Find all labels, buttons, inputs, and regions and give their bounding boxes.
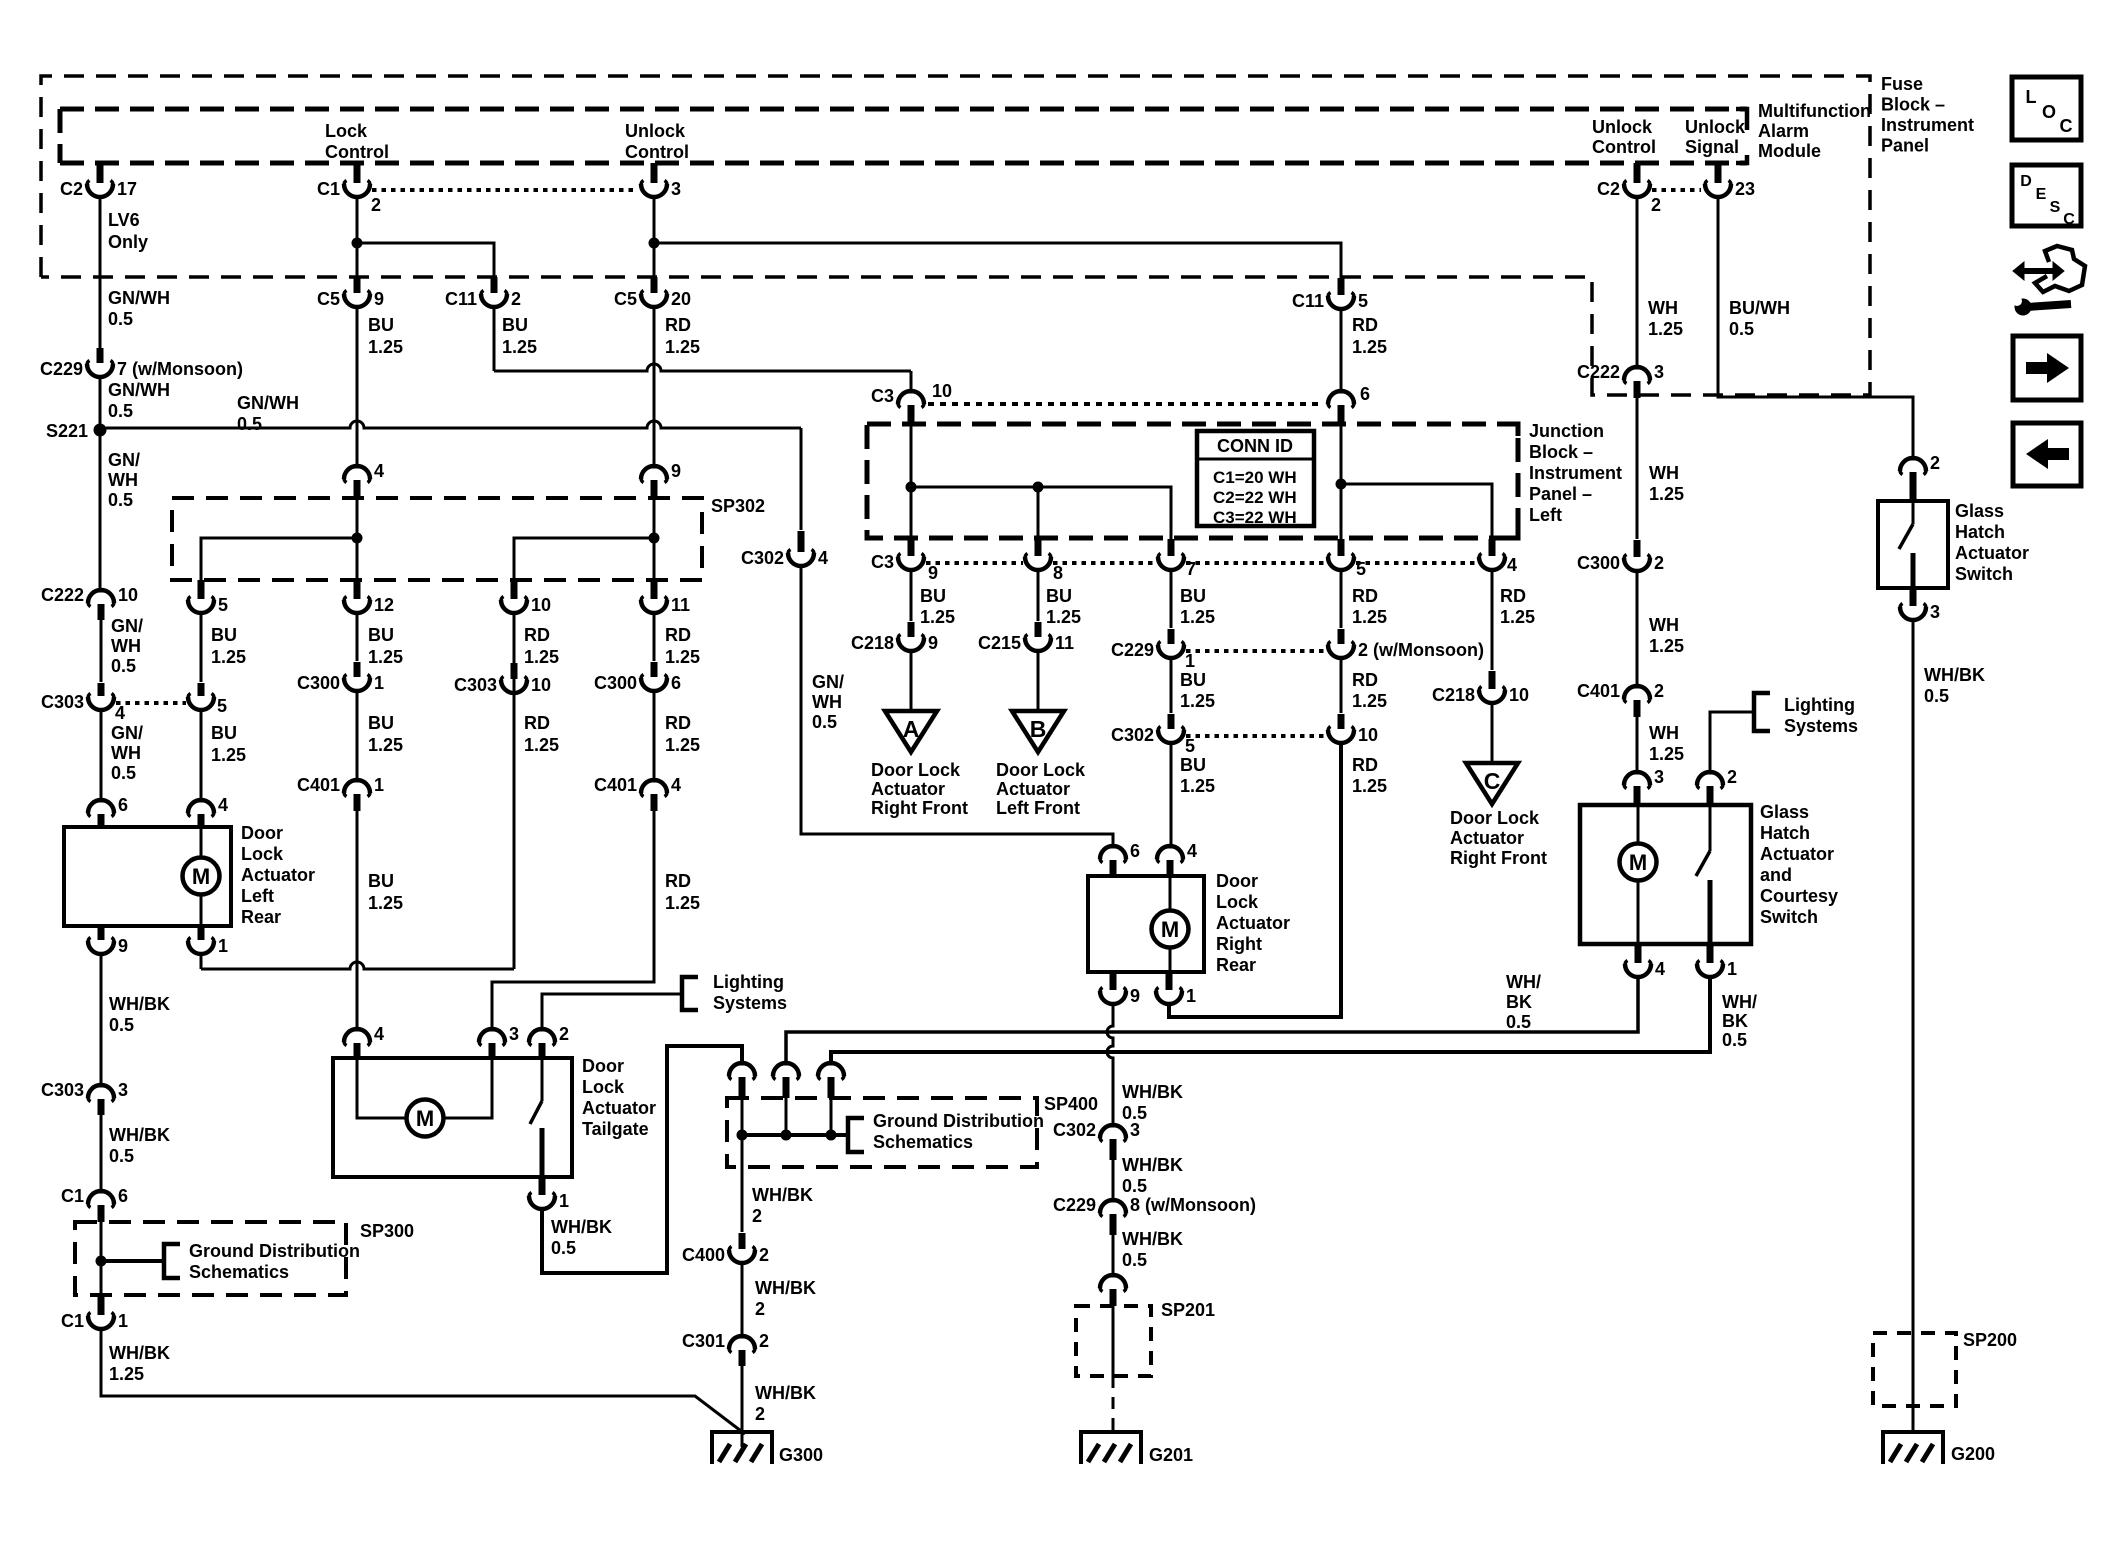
svg-text:WH1.25: WH1.25 [1649, 615, 1684, 656]
wire C302-10 down to right rear actuator pin 1 [1169, 744, 1341, 1017]
svg-text:CONN ID: CONN ID [1217, 436, 1293, 456]
svg-text:4: 4 [671, 775, 681, 795]
multifunction alarm module right bracket [1736, 109, 1747, 130]
svg-text:2: 2 [511, 289, 521, 309]
connector pin 4 left rear actuator [197, 799, 206, 803]
svg-text:C1: C1 [61, 1186, 84, 1206]
connector pin 3 glass hatch switch [1910, 588, 1917, 606]
svg-text:4: 4 [818, 548, 828, 568]
svg-text:SP200: SP200 [1963, 1330, 2017, 1350]
connector SP400 pin 1 [738, 1062, 747, 1066]
svg-text:C5: C5 [614, 289, 637, 309]
svg-text:23: 23 [1735, 179, 1755, 199]
connector C3 pin 6 [1337, 390, 1346, 394]
connector C300 pin 1 [354, 662, 361, 677]
connector pin 2 tailgate actuator [538, 1028, 547, 1032]
junction dot lock control [352, 238, 363, 249]
wire left-rear pin1 right and up to C303-10 with hop [200, 955, 203, 969]
wire tailgate pin 2 to lighting systems bracket [542, 994, 682, 1030]
connector C302 pin 3 [1109, 1124, 1118, 1128]
connector C229 pin 7 [97, 348, 104, 363]
connector pin 1 left rear actuator [198, 926, 205, 940]
connector C400 pin 2 [739, 1233, 746, 1249]
svg-text:M: M [1161, 917, 1179, 942]
svg-text:11: 11 [1055, 633, 1074, 653]
connector C5 pin 20 [651, 277, 658, 293]
connector C3 pin 10 [907, 390, 916, 394]
svg-text:L: L [2026, 87, 2037, 107]
svg-text:5: 5 [217, 696, 227, 716]
wire C303-4 to left rear actuator pin 6 [100, 711, 103, 801]
wire C222-10 to C303-4 [100, 620, 103, 682]
connector pin 2 glass hatch switch [1909, 457, 1918, 461]
svg-text:5: 5 [1358, 291, 1368, 311]
connector pin 6 left rear actuator [97, 799, 106, 803]
svg-text:2: 2 [1727, 767, 1737, 787]
svg-text:2: 2 [1930, 453, 1940, 473]
wire SP400 to C400-2 [741, 1167, 744, 1232]
svg-text:C401: C401 [1577, 681, 1620, 701]
connector C401 pin 2 [1633, 685, 1642, 689]
svg-text:G201: G201 [1149, 1445, 1193, 1465]
wire C5-20 down to connector 9 [653, 308, 656, 466]
junction block internal wires [910, 424, 913, 539]
svg-text:C302: C302 [1111, 725, 1154, 745]
connector C229 pin 2 [1338, 629, 1345, 644]
svg-text:6: 6 [1360, 384, 1370, 404]
lighting systems bracket left [682, 977, 698, 1010]
wire glass hatch 1 to SP400 pin 3 [831, 978, 1710, 1064]
svg-text:C2: C2 [1597, 179, 1620, 199]
svg-text:10: 10 [531, 675, 551, 695]
svg-text:UnlockControl: UnlockControl [625, 121, 689, 162]
wire C3-8 to C215-11 [1037, 571, 1040, 621]
wire junction down to C5-9 [356, 243, 359, 277]
wire C3-4 to C218-10 [1491, 571, 1494, 670]
svg-text:12: 12 [374, 595, 394, 615]
glass hatch switch blade [1912, 501, 1915, 524]
dotted link C302-5 to C302-10 [1186, 734, 1326, 738]
wire C3-7 to C229-1 [1170, 571, 1173, 628]
connector C218 pin 9 [908, 622, 915, 637]
svg-text:9: 9 [671, 461, 681, 481]
connector pin 23 (unlock signal) [1715, 163, 1722, 183]
connector C229 pin 1 [1168, 629, 1175, 644]
svg-text:SP201: SP201 [1161, 1300, 1215, 1320]
svg-text:C302: C302 [741, 548, 784, 568]
connector pin 11 out of SP302 [651, 580, 658, 599]
wire C3-9 to C218-9 [910, 571, 913, 621]
SP302 internal wires [356, 498, 359, 580]
wire glass hatch 4 to SP400 pin 2 [786, 978, 1638, 1064]
svg-text:3: 3 [1654, 767, 1664, 787]
dashed wire SP201 to G201 [1112, 1376, 1115, 1432]
dotted link C3-10 to C3-6 [928, 402, 1324, 406]
svg-text:3: 3 [1654, 362, 1664, 382]
wire C302-5 to right rear actuator pin 4 [1170, 744, 1173, 847]
svg-text:5: 5 [1185, 736, 1195, 756]
svg-text:C300: C300 [297, 673, 340, 693]
connector C218 pin 10 [1489, 671, 1496, 689]
wire C401-4 down left to tailgate pin 3 [492, 811, 654, 1030]
svg-text:9: 9 [928, 563, 938, 583]
svg-text:2: 2 [1651, 195, 1661, 215]
svg-text:4: 4 [115, 703, 125, 723]
svg-text:2 (w/Monsoon): 2 (w/Monsoon) [1358, 640, 1484, 660]
multifunction alarm module dashed box [60, 107, 1747, 112]
ground G201 [1081, 1432, 1141, 1464]
right arrow icon box [2013, 336, 2081, 400]
svg-text:SP400: SP400 [1044, 1094, 1098, 1114]
SP400 internal bus [741, 1098, 744, 1167]
svg-text:1: 1 [1185, 651, 1195, 671]
SP300 dashed box [75, 1222, 346, 1295]
svg-text:UnlockSignal: UnlockSignal [1685, 117, 1746, 157]
wire C301-2 to G300 [741, 1366, 744, 1447]
connector pin 6 right rear actuator [1109, 845, 1118, 849]
svg-text:WH1.25: WH1.25 [1649, 463, 1684, 504]
SP200 internal wire [1912, 1333, 1915, 1432]
svg-text:LightingSystems: LightingSystems [1784, 695, 1858, 736]
wire C3-5 to C229-2 [1340, 571, 1343, 628]
connector C3 pin 5 [1338, 539, 1345, 556]
svg-text:SP302: SP302 [711, 496, 765, 516]
glass hatch actuator and courtesy switch box [1580, 805, 1751, 944]
svg-text:4: 4 [374, 1024, 384, 1044]
off-page triangle B [1012, 711, 1064, 752]
svg-text:17: 17 [117, 179, 137, 199]
svg-text:C11: C11 [1292, 291, 1324, 311]
junction block dashed box [867, 424, 1518, 538]
svg-text:C401: C401 [297, 775, 340, 795]
connector C11 pin 5 [1338, 278, 1345, 295]
svg-text:C3: C3 [871, 386, 894, 406]
connector pin 1 glass hatch actuator [1707, 944, 1714, 963]
ground G300 [712, 1432, 772, 1464]
ground distribution bracket SP400 [848, 1118, 864, 1152]
svg-text:6: 6 [671, 673, 681, 693]
ground G200 [1883, 1432, 1943, 1464]
svg-text:UnlockControl: UnlockControl [1592, 117, 1656, 157]
tailgate motor circuit [357, 1058, 407, 1118]
svg-text:2: 2 [1654, 681, 1664, 701]
svg-text:B: B [1030, 716, 1047, 742]
svg-text:C1: C1 [61, 1311, 84, 1331]
connector C229 pin 8 [1109, 1199, 1118, 1203]
connector C222 pin 3 [1633, 366, 1642, 370]
connector pin 1 right rear actuator [1166, 972, 1173, 990]
connector C3 pin 8 [1035, 539, 1042, 556]
wire 12 to C300-1 [356, 614, 359, 661]
svg-text:6: 6 [118, 1186, 128, 1206]
svg-text:C3: C3 [871, 552, 894, 572]
svg-text:11: 11 [671, 595, 690, 615]
svg-text:C5: C5 [317, 289, 340, 309]
svg-text:C218: C218 [1432, 685, 1475, 705]
connector C3 pin 9 [908, 539, 915, 556]
svg-text:S221: S221 [46, 421, 88, 441]
door lock actuator left rear box [64, 827, 231, 926]
wire C300-1 to C401-1 [356, 692, 359, 781]
svg-text:5: 5 [218, 595, 228, 615]
CONN ID table [1197, 431, 1314, 526]
dotted links connector C3 bottom row [926, 561, 1023, 565]
left arrow icon box [2013, 423, 2081, 486]
svg-text:2: 2 [759, 1331, 769, 1351]
svg-text:WH1.25: WH1.25 [1648, 298, 1683, 339]
connector pin 5 out of SP302 [198, 580, 205, 599]
wire C11-5 down to junction block pin 6 [1340, 310, 1343, 391]
svg-text:M: M [416, 1106, 434, 1131]
connector C401 pin 1 [353, 779, 362, 783]
wire left rear pin 9 to C303-3 [100, 955, 103, 1086]
svg-text:C222: C222 [41, 585, 84, 605]
svg-text:S: S [2050, 199, 2061, 216]
svg-text:2: 2 [1654, 553, 1664, 573]
motor M right rear [1169, 876, 1172, 910]
connector C303 pin 10 [511, 663, 518, 679]
svg-text:C2: C2 [60, 179, 83, 199]
svg-text:3: 3 [118, 1080, 128, 1100]
connector C401 pin 4 [650, 779, 659, 783]
svg-text:C215: C215 [978, 633, 1021, 653]
service icon double arrow [2019, 268, 2058, 274]
wire C5-9 down to connector 4 [356, 308, 359, 466]
svg-text:O: O [2042, 102, 2056, 122]
svg-text:10: 10 [531, 595, 551, 615]
wire C302-3 to C229-8 [1112, 1160, 1115, 1201]
svg-text:C400: C400 [682, 1245, 725, 1265]
wire glass hatch switch to SP200 [1912, 621, 1915, 1333]
connector C2 pin 2 (unlock control right) [1634, 163, 1641, 183]
svg-text:4: 4 [1187, 841, 1197, 861]
svg-text:4: 4 [1507, 555, 1517, 575]
wire tailgate pin1 to SP400 [542, 1046, 742, 1273]
motor M left rear [200, 827, 203, 858]
svg-text:G200: G200 [1951, 1444, 1995, 1464]
connector C1 pin 3 (unlock control) [651, 163, 658, 183]
connector pin 4 right rear actuator [1166, 845, 1175, 849]
wire lighting systems to courtesy switch pin 2 [1710, 712, 1754, 772]
svg-text:1: 1 [374, 673, 384, 693]
svg-text:10: 10 [118, 585, 138, 605]
wire C1-2 down to junction [356, 198, 359, 243]
connector C1 pin 2 (lock control) [354, 163, 361, 183]
LOC icon box [2012, 77, 2081, 140]
svg-text:C218: C218 [851, 633, 894, 653]
svg-text:C229: C229 [40, 359, 83, 379]
connector pin 1 tailgate actuator [539, 1177, 546, 1195]
connector C303 pin 3 [97, 1084, 106, 1088]
svg-text:M: M [192, 864, 210, 889]
fuse block - instrument panel dashed outline [41, 76, 1870, 395]
service icon outline blob [2035, 246, 2085, 292]
lighting systems bracket right [1754, 693, 1770, 731]
connector pin 9 left rear actuator [98, 926, 105, 940]
svg-text:LightingSystems: LightingSystems [713, 972, 787, 1013]
wire C229-7 to S221 [99, 378, 102, 424]
connector C300 pin 2 [1634, 540, 1641, 557]
wire C401-1 to tailgate actuator pin 4 [356, 811, 359, 1030]
svg-text:3: 3 [1130, 1120, 1140, 1140]
wire C2-2 to C222-3 [1636, 198, 1639, 367]
svg-text:7 (w/Monsoon): 7 (w/Monsoon) [117, 359, 243, 379]
svg-text:C222: C222 [1577, 362, 1620, 382]
svg-text:SP300: SP300 [360, 1221, 414, 1241]
door lock actuator right rear box [1088, 876, 1204, 972]
splice S221 [94, 424, 107, 437]
svg-text:C11: C11 [445, 289, 477, 309]
connector pin 9 right rear actuator [1110, 972, 1117, 990]
svg-text:A: A [903, 716, 920, 742]
svg-text:9: 9 [928, 633, 938, 653]
svg-text:3: 3 [509, 1024, 519, 1044]
connector pin 4 into SP302 [353, 465, 362, 469]
svg-text:G300: G300 [779, 1445, 823, 1465]
svg-text:9: 9 [1130, 986, 1140, 1006]
connector C302 pin 5 [1168, 714, 1175, 729]
svg-text:20: 20 [671, 289, 691, 309]
connector C1 pin 6 [97, 1190, 106, 1194]
svg-text:9: 9 [374, 289, 384, 309]
wire C229-2 to C302-10 [1340, 659, 1343, 713]
connector pin 10 out of SP302 [511, 580, 518, 599]
wire C303-5 to left rear actuator pin 4 [200, 711, 203, 801]
svg-text:2: 2 [559, 1024, 569, 1044]
dotted link C229-1 to C229-2 [1186, 649, 1326, 653]
connector into SP201 [1109, 1274, 1118, 1278]
dotted link C2-2 to pin 23 [1652, 188, 1701, 192]
connector C11 pin 2 [491, 277, 498, 293]
glass hatch actuator switch box [1878, 501, 1948, 588]
connector SP400 pin 2 [782, 1062, 791, 1066]
svg-text:C300: C300 [594, 673, 637, 693]
wire junction to C11-5 [654, 243, 1341, 278]
svg-text:8: 8 [1053, 563, 1063, 583]
svg-text:8 (w/Monsoon): 8 (w/Monsoon) [1130, 1195, 1256, 1215]
svg-text:3: 3 [1930, 602, 1940, 622]
connector pin 12 out of SP302 [354, 580, 361, 599]
SP201 internal wire [1112, 1306, 1115, 1376]
off-page triangle C [1466, 763, 1518, 804]
connector C3 pin 7 [1168, 539, 1175, 556]
wire C11-2 down and right to C3-10 with hop [493, 308, 496, 371]
svg-text:C: C [2060, 116, 2073, 136]
svg-text:C300: C300 [1577, 553, 1620, 573]
svg-text:6: 6 [1130, 841, 1140, 861]
svg-text:C1: C1 [317, 179, 340, 199]
courtesy switch blade [1709, 805, 1712, 851]
wire C2-17 to C229-7 [99, 198, 102, 349]
connector C302 pin 4 [798, 531, 805, 552]
connector C303 pin 4 [98, 683, 105, 696]
DESC icon box [2012, 165, 2081, 226]
wire C303-3 to C1-6 [100, 1115, 103, 1192]
svg-text:C301: C301 [682, 1331, 725, 1351]
connector C3 pin 4 [1489, 539, 1496, 556]
connector C5 pin 9 [354, 277, 361, 293]
wire C1-3 down to junction [653, 198, 656, 243]
svg-text:10: 10 [932, 381, 952, 401]
tailgate switch [541, 1058, 544, 1101]
wire S221 down to C222-10 [99, 436, 102, 590]
service icon wrench [2015, 299, 2032, 316]
connector pin 3 glass hatch actuator [1633, 771, 1642, 775]
wire pin 23 to glass hatch switch pin 2 [1718, 198, 1913, 458]
svg-text:C303: C303 [41, 1080, 84, 1100]
svg-text:4: 4 [374, 461, 384, 481]
connector pin 2 courtesy switch [1706, 771, 1715, 775]
svg-text:1: 1 [374, 775, 384, 795]
wire 5 to C303-5 [200, 614, 203, 682]
connector pin 9 into SP302 [650, 465, 659, 469]
svg-text:1: 1 [1186, 986, 1196, 1006]
svg-text:2: 2 [759, 1245, 769, 1265]
svg-text:C1=20 WHC2=22 WHC3=22 WH: C1=20 WHC2=22 WHC3=22 WH [1213, 468, 1297, 527]
svg-text:E: E [2036, 186, 2047, 203]
connector C2 pin 17 [97, 163, 104, 183]
wire junction to C11-2 [357, 243, 494, 277]
wire C400-2 to C301-2 [741, 1264, 744, 1337]
svg-text:9: 9 [118, 936, 128, 956]
wire C218-10 to triangle C [1491, 704, 1494, 763]
wire C300-6 to C401-4 [653, 692, 656, 781]
wire C218-9 to triangle A [910, 652, 913, 711]
svg-text:4: 4 [218, 795, 228, 815]
junction block solid corners [1506, 424, 1518, 436]
wire C300-2 to C401-2 [1636, 572, 1639, 686]
wire junction down to C5-20 [653, 243, 656, 277]
connector C222 pin 10 [97, 589, 106, 593]
wire C1-1 to G300 with diagonal [101, 1330, 745, 1434]
svg-text:C302: C302 [1053, 1120, 1096, 1140]
svg-text:10: 10 [1358, 725, 1378, 745]
wire right-rear pin 9 down with hops [1107, 1005, 1113, 1126]
svg-text:C: C [1484, 768, 1501, 794]
dotted link C1-2 to C1-3 [372, 188, 636, 192]
svg-text:10: 10 [1509, 685, 1529, 705]
connector SP400 pin 3 [827, 1062, 836, 1066]
svg-text:1: 1 [1727, 959, 1737, 979]
connector pin 3 tailgate actuator [488, 1028, 497, 1032]
svg-text:WH1.25: WH1.25 [1649, 723, 1684, 764]
connector C1 pin 1 [98, 1295, 105, 1315]
svg-text:C: C [2063, 211, 2075, 228]
svg-text:D: D [2020, 173, 2032, 190]
SP302 dashed box [172, 498, 702, 580]
SP200 dashed box [1873, 1333, 1956, 1406]
door lock actuator tailgate box [333, 1058, 572, 1177]
SP201 dashed box [1076, 1306, 1151, 1376]
junction dot unlock control [649, 238, 660, 249]
wire C222-3 to C300-2 [1636, 398, 1639, 539]
wire C229-1 to C302-5 [1170, 659, 1173, 713]
svg-text:4: 4 [1655, 959, 1665, 979]
SP400 dashed box [727, 1098, 1037, 1167]
wire C302-4 down and right to right-rear actuator pin 6 [801, 567, 1113, 847]
svg-text:1: 1 [559, 1191, 569, 1211]
wire 11 to C300-6 [653, 614, 656, 661]
svg-text:M: M [1629, 850, 1647, 875]
svg-text:2: 2 [371, 195, 381, 215]
svg-text:1: 1 [218, 936, 228, 956]
svg-text:C229: C229 [1053, 1195, 1096, 1215]
SP300 internal wire [100, 1222, 103, 1295]
wire C401-2 to glass hatch actuator pin 3 [1636, 717, 1639, 773]
wire C215-11 to triangle B [1037, 652, 1040, 711]
svg-text:C303: C303 [41, 692, 84, 712]
connector C300 pin 6 [651, 662, 658, 677]
